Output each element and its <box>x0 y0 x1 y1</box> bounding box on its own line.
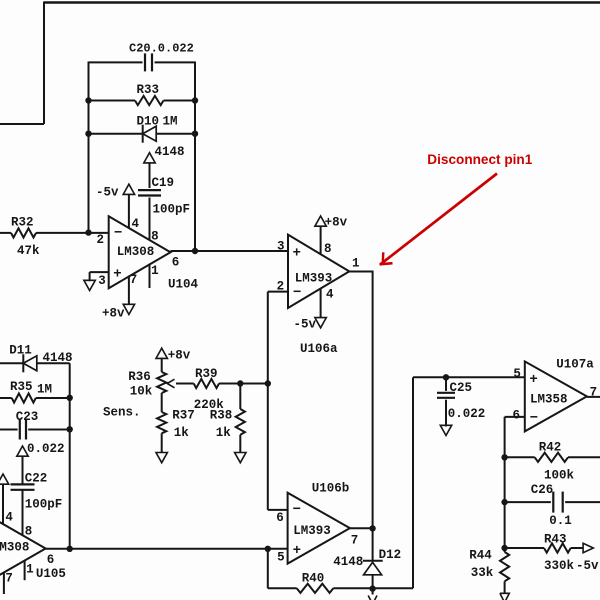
svg-text:D10: D10 <box>137 115 160 129</box>
svg-text:6: 6 <box>276 511 284 525</box>
svg-text:+: + <box>293 246 301 262</box>
svg-text:8: 8 <box>25 524 33 538</box>
svg-text:100k: 100k <box>544 469 575 483</box>
wire - U107a pin6 input <box>505 416 525 418</box>
svg-text:3: 3 <box>98 274 106 288</box>
svg-text:3: 3 <box>277 239 285 253</box>
resistor R32 47k <box>0 232 11 234</box>
svg-text:1M: 1M <box>37 383 52 397</box>
svg-text:C19: C19 <box>152 176 175 190</box>
svg-text:0.022: 0.022 <box>27 442 65 456</box>
svg-text:6: 6 <box>47 553 55 567</box>
svg-text:5: 5 <box>277 551 285 565</box>
svg-text:R36: R36 <box>128 370 151 384</box>
capacitor C19 100pF <box>138 189 161 191</box>
power arrow above C19 <box>144 153 155 163</box>
pin 8 branch +8v <box>320 227 322 255</box>
svg-text:1: 1 <box>151 264 159 278</box>
power +8v arrow for R36 <box>156 348 167 358</box>
capacitor C25 0.022 <box>445 377 447 391</box>
resistor R33 <box>89 100 136 102</box>
diode D11 4148 <box>0 362 23 364</box>
svg-text:C20.0.022: C20.0.022 <box>129 42 194 56</box>
node - D10 left junction <box>85 131 91 137</box>
svg-text:Disconnect pin1: Disconnect pin1 <box>427 152 532 167</box>
svg-text:8: 8 <box>151 230 159 244</box>
power -5v arrow right <box>583 543 593 553</box>
svg-text:4148: 4148 <box>43 351 73 365</box>
svg-text:−: − <box>530 411 538 427</box>
svg-text:7: 7 <box>5 571 13 585</box>
svg-text:+8v: +8v <box>102 307 125 321</box>
power arrow for U105 pin4 <box>0 474 9 484</box>
svg-text:47k: 47k <box>17 244 40 258</box>
op-amp U107a LM358 <box>525 361 587 431</box>
power arrow above C22 <box>17 446 28 456</box>
ground arrow below R38 <box>235 453 246 463</box>
ground arrow below C25 <box>440 425 451 435</box>
svg-text:1k: 1k <box>216 426 232 440</box>
node - R38 top junction <box>237 380 243 386</box>
svg-text:+: + <box>113 267 121 283</box>
node - C23 junction <box>67 426 73 432</box>
svg-text:R40: R40 <box>302 572 325 586</box>
resistor R43 330k <box>505 547 544 549</box>
op-amp U104 LM308 <box>109 216 171 288</box>
svg-text:4: 4 <box>5 511 13 525</box>
node - U105 output junction <box>67 546 73 552</box>
node - R33 right junction <box>192 97 198 103</box>
wire - feedback right rail <box>194 62 196 252</box>
capacitor C20 <box>144 53 146 71</box>
wire - pin1 output bend <box>349 272 372 529</box>
wire - vertical rail x=268 <box>267 292 269 510</box>
wire - R40 right rail up <box>412 377 414 588</box>
svg-text:R33: R33 <box>137 83 160 97</box>
node - output junction <box>192 248 198 254</box>
op-amp U105 LM308 <box>0 513 46 585</box>
svg-text:−: − <box>293 502 301 518</box>
wire - U105 output to U106b pin5 <box>46 548 288 550</box>
diode D12 4148 <box>372 529 374 561</box>
svg-text:8: 8 <box>324 242 332 256</box>
pin 1 stub <box>149 264 151 288</box>
resistor R37 1k <box>161 393 163 412</box>
svg-text:R42: R42 <box>539 441 562 455</box>
node - D12 bottom junction <box>369 585 375 591</box>
op-amp U106b LM393 <box>288 493 350 564</box>
svg-text:LM308: LM308 <box>117 245 155 259</box>
node - R43 junction <box>501 545 507 551</box>
pin 4 branch -5v <box>320 288 322 318</box>
svg-text:6: 6 <box>172 255 180 269</box>
svg-text:-5v: -5v <box>96 186 119 200</box>
wire - pin 7 drop <box>128 276 130 305</box>
svg-text:6: 6 <box>513 408 521 422</box>
svg-text:4148: 4148 <box>333 555 363 569</box>
svg-text:+: + <box>293 543 301 559</box>
wire - U106a pin2 input <box>268 291 288 293</box>
svg-text:U106b: U106b <box>312 481 350 495</box>
svg-text:−: − <box>293 285 301 301</box>
svg-text:7: 7 <box>351 534 359 548</box>
svg-text:7: 7 <box>130 273 138 287</box>
resistor R40 <box>268 587 297 589</box>
wire - rail x=69.7 <box>69 363 71 549</box>
node - U106b pin7 junction <box>369 525 375 531</box>
svg-text:4: 4 <box>326 287 334 301</box>
svg-text:+8v: +8v <box>325 216 348 230</box>
ground arrow at U104 pin3 <box>84 280 95 290</box>
node - pin2 junction <box>85 229 91 235</box>
svg-text:+8v: +8v <box>168 349 191 363</box>
svg-text:LM358: LM358 <box>530 393 568 407</box>
resistor R39 220k <box>194 379 219 388</box>
wire - U107a output <box>587 396 600 398</box>
svg-text:1M: 1M <box>163 115 178 129</box>
resistor R35 1M <box>0 397 12 399</box>
wire - feedback rail x=504.6 <box>504 417 506 552</box>
svg-text:+: + <box>529 372 537 388</box>
svg-text:330k: 330k <box>544 559 575 573</box>
svg-text:U104: U104 <box>168 278 199 292</box>
svg-text:5: 5 <box>513 367 521 381</box>
wire - U104 output to U106a pin3 <box>171 250 289 252</box>
node - R35 junction <box>67 395 73 401</box>
wire - top border <box>44 1 600 4</box>
svg-text:1: 1 <box>26 563 34 577</box>
wire - feedback left rail <box>88 62 90 233</box>
svg-text:1k: 1k <box>174 426 190 440</box>
pin 7 line <box>3 572 5 594</box>
svg-text:D11: D11 <box>9 344 32 358</box>
op-amp U106a LM393 <box>288 235 349 308</box>
wire - C20 top wire <box>89 61 143 63</box>
node - D10 right junction <box>192 131 198 137</box>
svg-text:U105: U105 <box>36 567 66 581</box>
svg-text:−: − <box>114 226 122 242</box>
svg-text:-5v: -5v <box>576 559 599 573</box>
node - C26 junction <box>501 499 507 505</box>
capacitor C22 100pF <box>11 483 35 485</box>
node - R39 right junction <box>265 380 271 386</box>
wire - C22 branch <box>22 456 24 485</box>
svg-text:4: 4 <box>132 217 140 231</box>
svg-text:10k: 10k <box>130 385 153 399</box>
wire - to U107a pin5 <box>413 376 525 378</box>
wire - stub below D12 node <box>372 588 374 594</box>
svg-text:100pF: 100pF <box>25 498 63 512</box>
svg-text:LM393: LM393 <box>293 524 331 538</box>
svg-text:R38: R38 <box>210 409 233 423</box>
svg-text:0.1: 0.1 <box>549 514 572 528</box>
wire - pin 4 drop <box>128 194 130 229</box>
wire - left stub at y=124 <box>0 123 44 125</box>
wire - C19 branch <box>149 162 151 188</box>
wire - U106b pin7 output <box>350 527 373 529</box>
svg-text:R39: R39 <box>195 367 218 381</box>
ground arrow below R44 (clipped) <box>500 593 509 600</box>
resistor R44 33k <box>500 552 509 581</box>
node - C25 junction <box>443 374 449 380</box>
svg-text:-5v: -5v <box>294 318 317 332</box>
capacitor C23 0.022 <box>0 429 18 431</box>
resistor R42 100k <box>505 456 535 458</box>
svg-text:U107a: U107a <box>556 357 594 371</box>
capacitor C26 0.1 <box>505 501 551 503</box>
svg-text:LM393: LM393 <box>295 271 333 285</box>
annotation arrow to pin1 <box>381 174 497 265</box>
svg-text:100pF: 100pF <box>153 203 191 217</box>
svg-text:C22: C22 <box>25 472 48 486</box>
potentiometer R36 10k <box>161 358 163 372</box>
node - R33 left junction <box>85 97 91 103</box>
ground arrow below R37 <box>156 453 167 463</box>
svg-text:C25: C25 <box>450 381 473 395</box>
node - U106b pin5 junction <box>265 546 271 552</box>
pot wiper arrow <box>176 383 194 385</box>
pin 1 stub <box>24 560 26 580</box>
diode D10 1M <box>89 133 143 135</box>
svg-text:R44: R44 <box>469 549 492 563</box>
resistor R38 1k <box>239 384 241 410</box>
svg-text:2: 2 <box>97 233 105 247</box>
svg-text:R32: R32 <box>11 216 34 230</box>
svg-text:33k: 33k <box>471 566 494 580</box>
svg-text:R37: R37 <box>172 409 195 423</box>
svg-text:R35: R35 <box>10 380 33 394</box>
svg-text:C26: C26 <box>531 483 554 497</box>
svg-text:Sens.: Sens. <box>103 406 141 420</box>
svg-text:LM308: LM308 <box>0 541 29 555</box>
svg-text:U106a: U106a <box>300 342 338 356</box>
wire - top-left vertical drop <box>43 2 45 125</box>
svg-text:4148: 4148 <box>155 145 185 159</box>
wire - pin5 node down to R40 <box>267 549 269 589</box>
wire - U106b pin6 input <box>268 509 288 511</box>
svg-text:D12: D12 <box>379 548 402 562</box>
svg-text:R43: R43 <box>544 533 567 547</box>
node - R42 junction <box>501 454 507 460</box>
svg-text:0.022: 0.022 <box>448 407 486 421</box>
wire - pin 3 to ground <box>90 271 109 273</box>
svg-text:C23: C23 <box>16 410 39 424</box>
svg-text:1: 1 <box>352 257 360 271</box>
